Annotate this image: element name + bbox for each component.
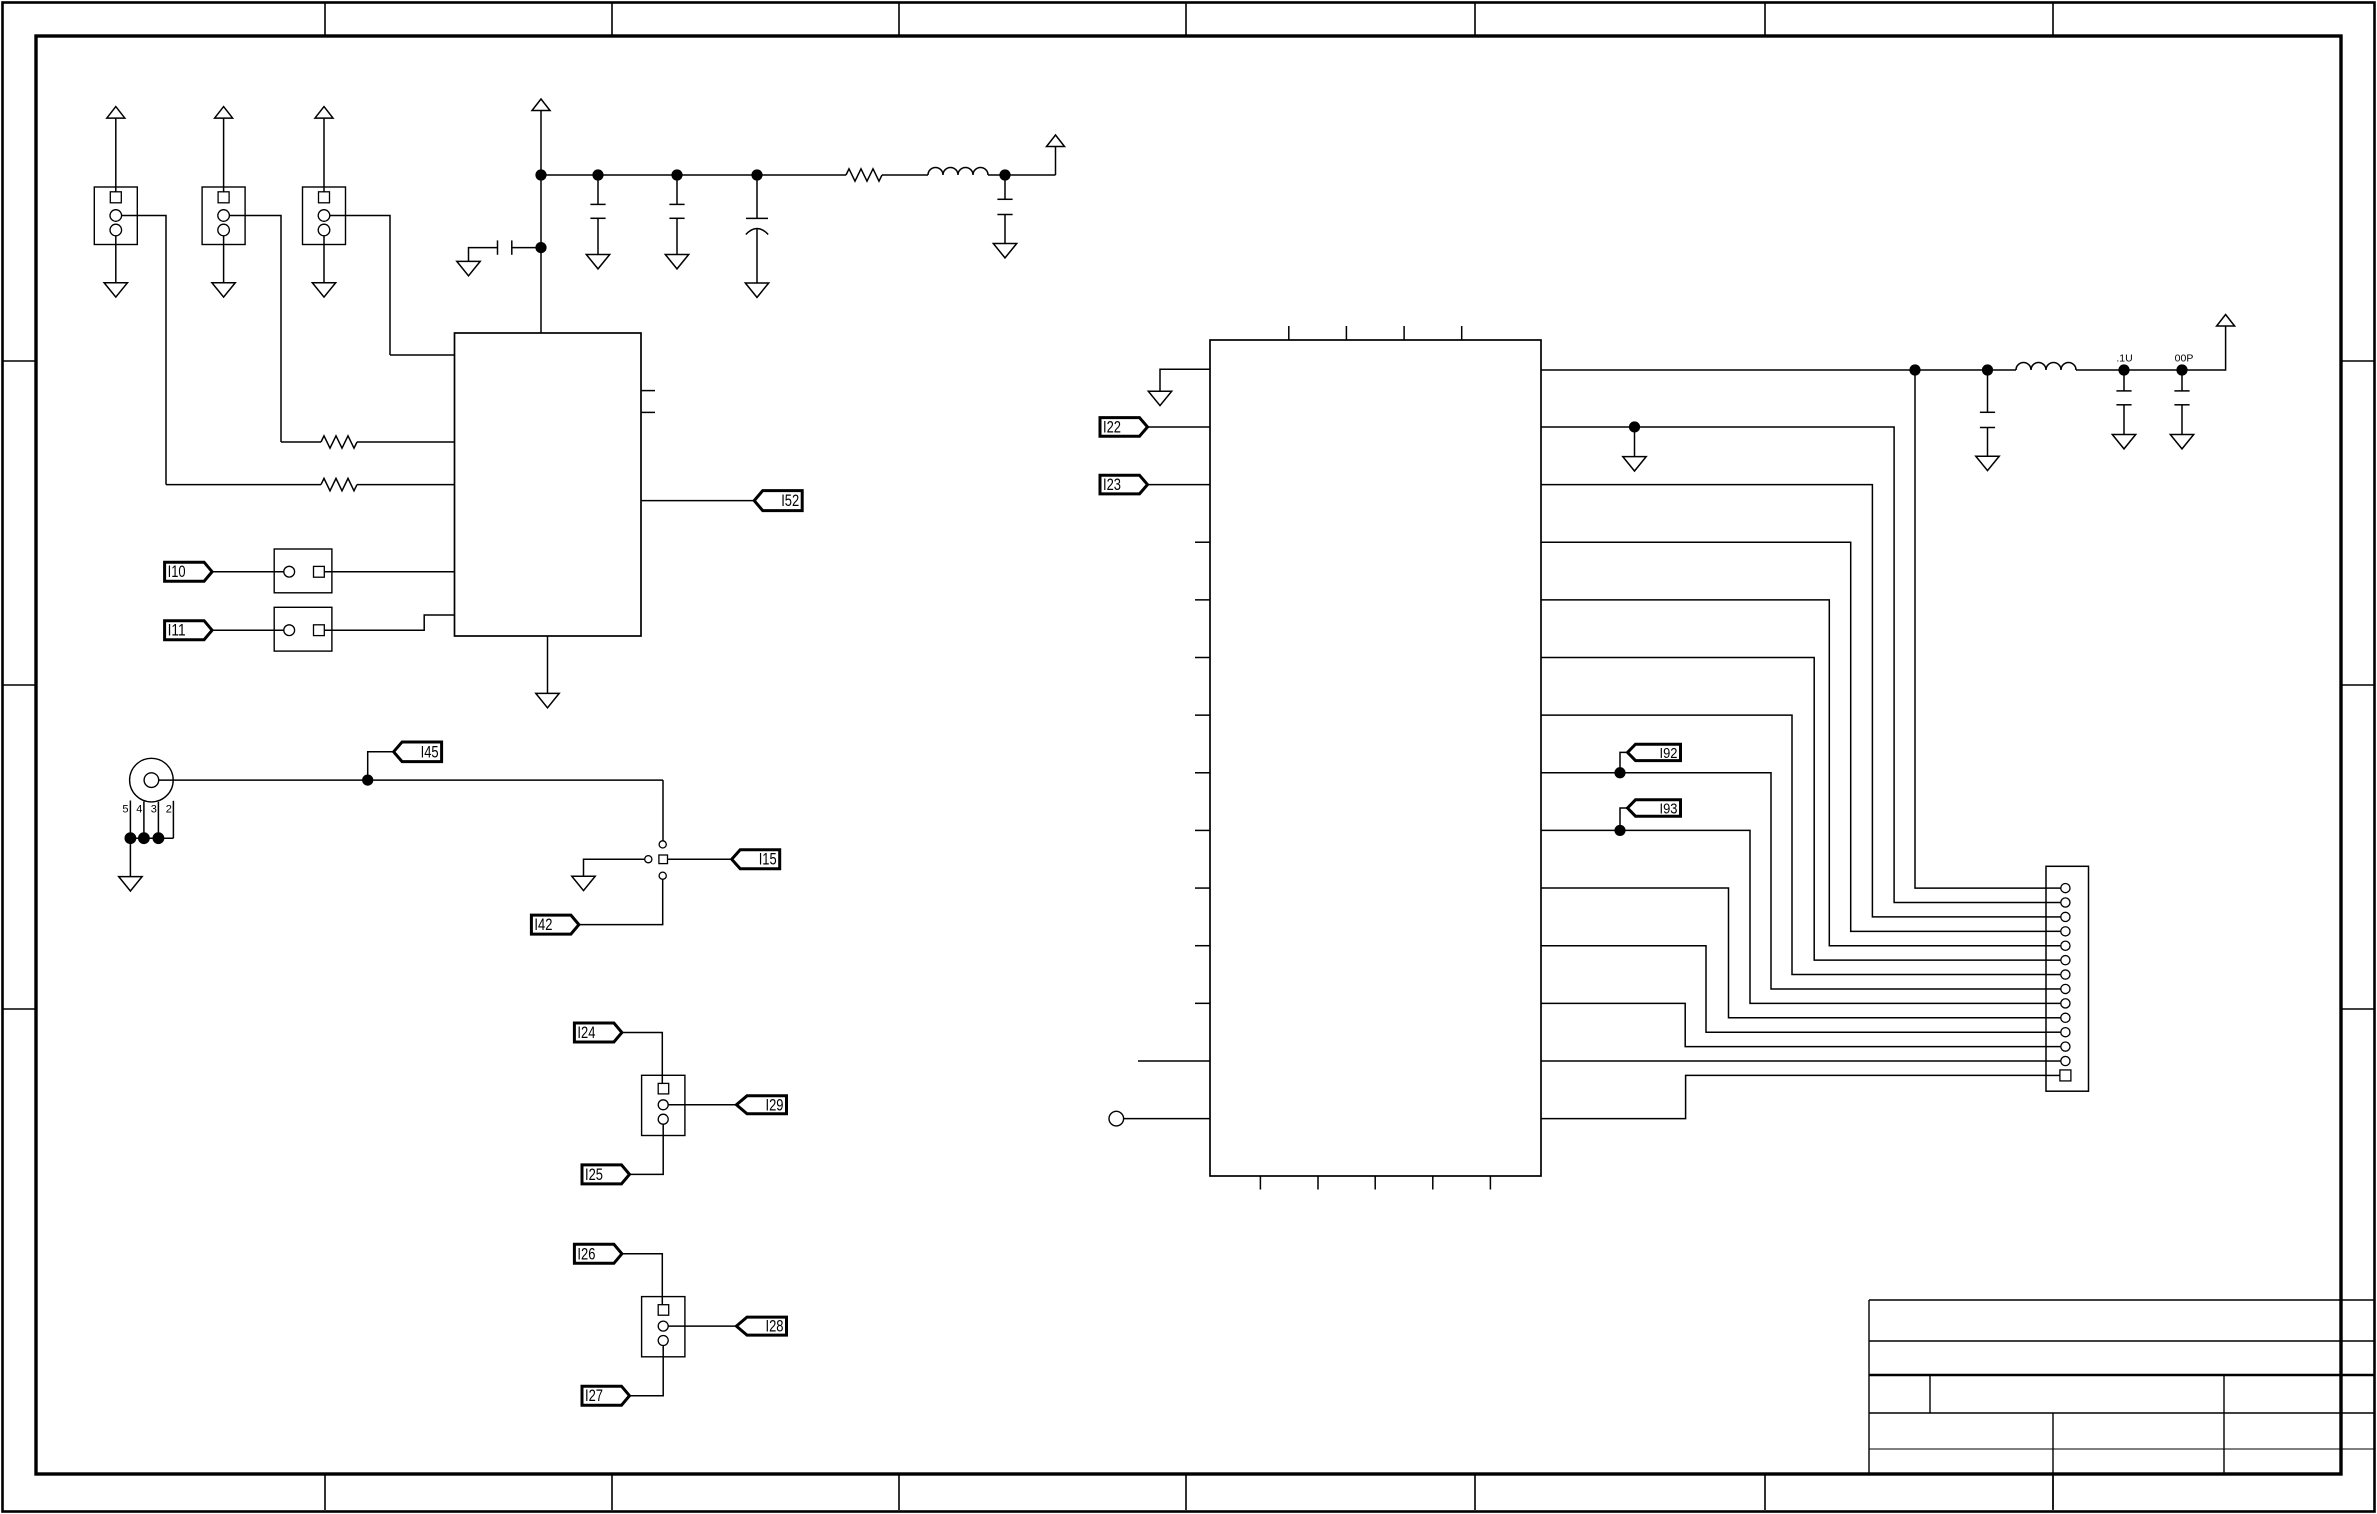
pin stub U2 top: [1403, 326, 1405, 340]
pin stub U2 top: [1461, 326, 1463, 340]
svg-text:I25: I25: [585, 1165, 603, 1184]
power arrow above jumper J3: [315, 107, 333, 119]
wire: [668, 1325, 736, 1327]
pin stub U2 bottom: [1374, 1176, 1376, 1190]
jumper J1 pin 1 (square): [110, 192, 121, 203]
junction node: [592, 169, 603, 180]
wire: [1148, 484, 1211, 486]
junction node: [1909, 364, 1920, 375]
wire: [368, 752, 394, 780]
pin stub U2 left: [1195, 945, 1210, 947]
ground below C1: [586, 255, 609, 269]
net flag I11: [165, 621, 213, 640]
power arrow VIN: [532, 99, 550, 111]
junction node: [124, 832, 136, 844]
wire: [540, 175, 542, 333]
BNC connector J6: [130, 758, 174, 802]
junction node: [535, 242, 546, 253]
wire: [2046, 988, 2061, 990]
title block row line 3: [1869, 1374, 2374, 1376]
wire: [281, 441, 321, 443]
jumper J5 body: [274, 607, 332, 651]
wire: [1634, 427, 1636, 457]
ground below C4: [993, 244, 1016, 258]
jumper J1 pin 2: [110, 210, 122, 222]
ground below C7: [2112, 435, 2135, 449]
wire: [622, 1254, 662, 1305]
ground below C2: [665, 255, 688, 269]
wire: [1541, 888, 2046, 1018]
border zone tick right: [2341, 360, 2374, 362]
wire: [1160, 369, 1210, 391]
jumper J1 pin 3: [110, 224, 122, 236]
jumper J3 pin 3: [318, 224, 330, 236]
title block divider c: [2223, 1375, 2225, 1474]
border zone tick right: [2341, 684, 2374, 686]
border zone tick top: [324, 3, 326, 36]
wire: [130, 837, 173, 839]
pad cluster center pin (square): [659, 855, 668, 864]
wire: [1055, 147, 1057, 176]
wire: [2046, 930, 2061, 932]
wire: [2123, 370, 2125, 391]
connector J9 pin 11: [2061, 1028, 2070, 1037]
resistor R3 on rail: [846, 169, 882, 181]
junction node: [138, 832, 150, 844]
svg-text:I52: I52: [781, 491, 799, 510]
jumper J3 pin 2: [318, 210, 330, 222]
wire: [668, 858, 732, 860]
connector J9 pin 8: [2061, 984, 2070, 993]
wire: [129, 838, 131, 876]
wire: [1541, 830, 2046, 1003]
net flag I15: [732, 850, 780, 869]
wire: [2181, 370, 2183, 391]
resistor R2: [321, 478, 357, 490]
wire VIN rail: [541, 174, 846, 176]
wire: [676, 218, 678, 254]
jumper J2 pin 2: [218, 210, 230, 222]
net flag I24: [574, 1023, 622, 1042]
ground below jumper J3: [312, 283, 335, 297]
border zone tick top: [1474, 3, 1476, 36]
wire: [579, 879, 663, 924]
capacitor C2: [669, 203, 684, 205]
net flag I26: [574, 1244, 622, 1263]
BNC shield pin 3: [157, 802, 159, 838]
wire: [357, 441, 455, 443]
jumper J4 body: [274, 549, 332, 593]
wire: [1148, 426, 1211, 428]
wire: [1541, 946, 2046, 1032]
border zone tick top: [611, 3, 613, 36]
junction node: [1614, 825, 1625, 836]
border zone tick bottom: [324, 1474, 326, 1510]
wire: [1541, 773, 2046, 989]
wire: [1541, 485, 2046, 917]
svg-text:4: 4: [136, 804, 142, 816]
junction node: [1614, 767, 1625, 778]
wire: [2046, 1017, 2061, 1019]
pin stub U2 top: [1345, 326, 1347, 340]
wire: [1541, 715, 2046, 974]
junction node: [2118, 364, 2129, 375]
pin stub U2 bottom: [1317, 1176, 1319, 1190]
resistor R1: [321, 436, 357, 448]
title block divider b: [2052, 1413, 2054, 1509]
wire: [1541, 1003, 2046, 1046]
wire: [2046, 1074, 2060, 1076]
BNC shield pin 5: [129, 801, 131, 839]
wire: [882, 174, 928, 176]
ground below C6: [1976, 456, 1999, 470]
jumper J5 pin a: [284, 625, 295, 636]
jumper J4 pin a: [284, 566, 295, 577]
capacitor C3 (polarized): [746, 217, 768, 219]
wire: [1541, 658, 2046, 961]
wire: [597, 218, 599, 254]
wire: [115, 236, 117, 283]
svg-text:3: 3: [151, 804, 157, 816]
pin stub U2 left: [1195, 714, 1210, 716]
power arrow above jumper J1: [107, 107, 125, 119]
wire: [1124, 1118, 1210, 1120]
border zone tick top: [898, 3, 900, 36]
pin stub U2 top: [1288, 326, 1290, 340]
connector J9 pin 1: [2061, 884, 2070, 893]
wire: [547, 636, 549, 693]
pin stub U1 right 1: [641, 390, 655, 392]
wire: [1635, 427, 2047, 903]
jumper J8 pin 2: [658, 1321, 668, 1331]
ground below C3: [745, 283, 768, 297]
border zone tick top: [2052, 3, 2054, 36]
jumper J4 pin b (square): [314, 566, 325, 577]
jumper J2 body: [202, 187, 245, 245]
net flag I28: [736, 1317, 786, 1335]
junction node: [751, 169, 762, 180]
net flag I23: [1100, 475, 1148, 494]
inductor L1: [928, 168, 988, 176]
wire: [324, 571, 454, 573]
wire: [629, 1124, 663, 1174]
wire: [2046, 945, 2061, 947]
jumper J3 body: [303, 187, 346, 245]
wire: [1541, 542, 2046, 931]
wire: [1541, 426, 1635, 428]
jumper J7 pin 1 (square): [658, 1083, 669, 1094]
wire: [324, 615, 454, 630]
title block row line 2: [1869, 1340, 2374, 1342]
pad cluster left pin: [645, 856, 652, 863]
net flag I25: [582, 1165, 630, 1184]
wire: [323, 236, 325, 283]
wire: [1915, 369, 1988, 371]
svg-text:I26: I26: [577, 1244, 595, 1263]
connector J9 pin 2: [2061, 898, 2070, 907]
ground at U2 pin 1: [1148, 391, 1171, 405]
wire: [122, 216, 166, 485]
wire: [2046, 974, 2061, 976]
junction node: [1629, 421, 1640, 432]
regulator U1: [455, 333, 642, 636]
connector J9 pin 10: [2061, 1013, 2070, 1022]
wire: [756, 175, 758, 218]
junction node: [1982, 364, 1993, 375]
jumper J1 body: [94, 187, 137, 245]
pin stub U2 left: [1195, 541, 1210, 543]
wire: [2046, 887, 2061, 889]
junction node: [999, 169, 1010, 180]
pin stub U2 left: [1195, 657, 1210, 659]
jumper J7 pin 2: [658, 1100, 668, 1110]
capacitor C4: [997, 198, 1012, 200]
inductor L2: [2016, 363, 2076, 370]
wire: [469, 248, 498, 262]
pin stub U2 bottom: [1432, 1176, 1434, 1190]
jumper J8 body: [642, 1297, 685, 1357]
wire: [229, 216, 281, 443]
connector J9 body: [2046, 866, 2089, 1091]
jumper J5 pin b (square): [314, 625, 325, 636]
connector J9 pin 13: [2061, 1056, 2070, 1065]
svg-text:I24: I24: [577, 1023, 595, 1042]
wire: [2046, 1046, 2061, 1048]
junction node: [535, 169, 546, 180]
power arrow after L1: [1047, 135, 1065, 147]
wire: [357, 484, 455, 486]
wire: [662, 780, 664, 841]
border zone tick bottom: [1185, 1474, 1187, 1510]
ground below jumper J1: [104, 283, 127, 297]
wire: [223, 236, 225, 283]
ground at U2 pin 2 net: [1623, 457, 1646, 471]
net flag I42: [531, 915, 579, 934]
title block row line 1: [1869, 1299, 2374, 1301]
ground left of C5: [457, 261, 480, 275]
BNC shield pin 2: [172, 801, 174, 838]
wire: [2123, 405, 2125, 435]
wire: [1620, 752, 1628, 772]
border zone tick bottom: [898, 1474, 900, 1510]
pad cluster bottom pin: [659, 872, 666, 879]
wire: [1541, 600, 2046, 946]
wire: [212, 571, 284, 573]
wire: [1988, 369, 2017, 371]
svg-text:.1U: .1U: [2116, 353, 2132, 365]
border zone tick bottom: [611, 1474, 613, 1510]
connector J9 pin 3: [2061, 912, 2070, 921]
svg-text:I23: I23: [1103, 475, 1121, 494]
net flag I52: [754, 491, 802, 511]
wire: [2046, 1002, 2061, 1004]
wire: [629, 1346, 663, 1396]
border zone tick bottom: [2052, 1474, 2054, 1510]
pin stub U2 left: [1195, 599, 1210, 601]
pin stub U1 right 2: [641, 411, 655, 413]
svg-text:00P: 00P: [2175, 353, 2194, 365]
wire: [2182, 326, 2226, 370]
svg-text:I22: I22: [1103, 417, 1121, 436]
ground below BNC: [119, 877, 142, 891]
connector J9 pin 7: [2061, 970, 2070, 979]
title block left edge: [1868, 1300, 1870, 1474]
svg-text:I11: I11: [168, 621, 186, 640]
border zone tick bottom: [1764, 1474, 1766, 1510]
BNC shield pin 4: [143, 802, 145, 839]
wire: [1004, 175, 1006, 199]
connector J9 pin 9: [2061, 999, 2070, 1008]
wire: [1620, 808, 1628, 830]
wire: [2076, 369, 2182, 371]
svg-text:I45: I45: [421, 742, 439, 761]
wire: [2046, 916, 2061, 918]
jumper J2 pin 3: [218, 224, 230, 236]
ground below jumper J2: [212, 283, 235, 297]
svg-text:I29: I29: [766, 1095, 784, 1114]
title block row line 4: [1869, 1412, 2374, 1414]
jumper J2 pin 1 (square): [218, 192, 229, 203]
pin stub U2 bottom: [1259, 1176, 1261, 1190]
ground below U1: [536, 693, 559, 707]
border zone tick top: [1764, 3, 1766, 36]
title block row line 5: [1869, 1448, 2374, 1450]
svg-text:I92: I92: [1660, 746, 1678, 762]
wire: [2046, 902, 2061, 904]
pin stub U2 left: [1195, 772, 1210, 774]
capacitor C5: [511, 240, 513, 254]
wire: [212, 629, 284, 631]
pin stub U2 left: [1195, 887, 1210, 889]
border zone tick right: [2341, 1008, 2374, 1010]
border zone tick bottom: [1474, 1474, 1476, 1510]
wire: [2181, 405, 2183, 435]
border zone tick left: [3, 1008, 36, 1010]
wire: [641, 500, 754, 502]
svg-text:2: 2: [166, 804, 172, 816]
wire: [159, 779, 663, 781]
pin stub U2 bottom: [1489, 1176, 1491, 1190]
wire: [1004, 215, 1006, 244]
svg-text:I10: I10: [168, 562, 186, 581]
wire: [2046, 959, 2061, 961]
wire: [540, 111, 542, 176]
jumper J8 pin 1 (square): [658, 1305, 669, 1316]
wire: [166, 484, 321, 486]
pin stub U2 left: [1195, 1002, 1210, 1004]
capacitor C6: [1980, 411, 1995, 413]
jumper J3 pin 1 (square): [319, 192, 330, 203]
wire: [2046, 1031, 2061, 1033]
wire: [1541, 1060, 2046, 1062]
wire: [323, 118, 325, 192]
pin circle U2 pin 14: [1109, 1111, 1124, 1126]
net flag I27: [582, 1386, 630, 1405]
connector J9 pin 4: [2061, 927, 2070, 936]
connector J9 pin 12: [2061, 1042, 2070, 1051]
wire: [1541, 369, 1915, 371]
net flag I29: [736, 1096, 786, 1114]
jumper J8 pin 3: [658, 1336, 668, 1346]
svg-text:I15: I15: [759, 850, 777, 869]
connector J9 pin 5: [2061, 941, 2070, 950]
power arrow VDD: [2217, 315, 2235, 327]
wire: [668, 1104, 736, 1106]
jumper J7 pin 3: [658, 1114, 668, 1124]
wire: [1987, 370, 1989, 412]
svg-text:I93: I93: [1660, 802, 1678, 818]
svg-text:I28: I28: [766, 1317, 784, 1336]
connector J9 pin 6: [2061, 956, 2070, 965]
net flag I10: [165, 562, 213, 581]
connector J9 pin 14 (square): [2060, 1070, 2071, 1081]
pin stub U2 left: [1195, 829, 1210, 831]
wire: [115, 118, 117, 192]
junction node: [153, 832, 165, 844]
title block divider a: [1929, 1375, 1931, 1413]
border zone tick left: [3, 684, 36, 686]
wire: [330, 216, 390, 356]
wire: [756, 229, 758, 283]
wire: [390, 354, 455, 356]
wire: [988, 174, 1056, 176]
wire: [584, 859, 645, 876]
net flag I93: [1628, 800, 1681, 816]
wire: [1138, 1060, 1210, 1062]
border zone tick top: [1185, 3, 1187, 36]
net flag I45: [394, 742, 442, 762]
ground below C8: [2170, 435, 2193, 449]
wire: [223, 118, 225, 192]
wire: [1915, 370, 2046, 888]
junction node: [362, 775, 373, 786]
power arrow above jumper J2: [215, 107, 233, 119]
jumper J7 body: [642, 1075, 685, 1135]
svg-text:5: 5: [122, 804, 128, 816]
net flag I22: [1100, 418, 1148, 437]
IC U2: [1210, 340, 1541, 1176]
wire: [2046, 1060, 2061, 1062]
wire: [676, 175, 678, 204]
svg-text:I42: I42: [534, 915, 552, 934]
wire: [512, 247, 541, 249]
wire: [1987, 428, 1989, 457]
wire: [622, 1033, 662, 1084]
pad cluster top pin: [659, 841, 666, 848]
wire: [597, 175, 599, 204]
junction node: [2176, 364, 2187, 375]
border zone tick left: [3, 360, 36, 362]
capacitor C1: [590, 203, 605, 205]
svg-text:I27: I27: [585, 1386, 603, 1405]
ground left of pad cluster: [572, 876, 595, 890]
junction node: [671, 169, 682, 180]
wire: [1541, 1075, 2046, 1118]
net flag I92: [1628, 744, 1681, 760]
